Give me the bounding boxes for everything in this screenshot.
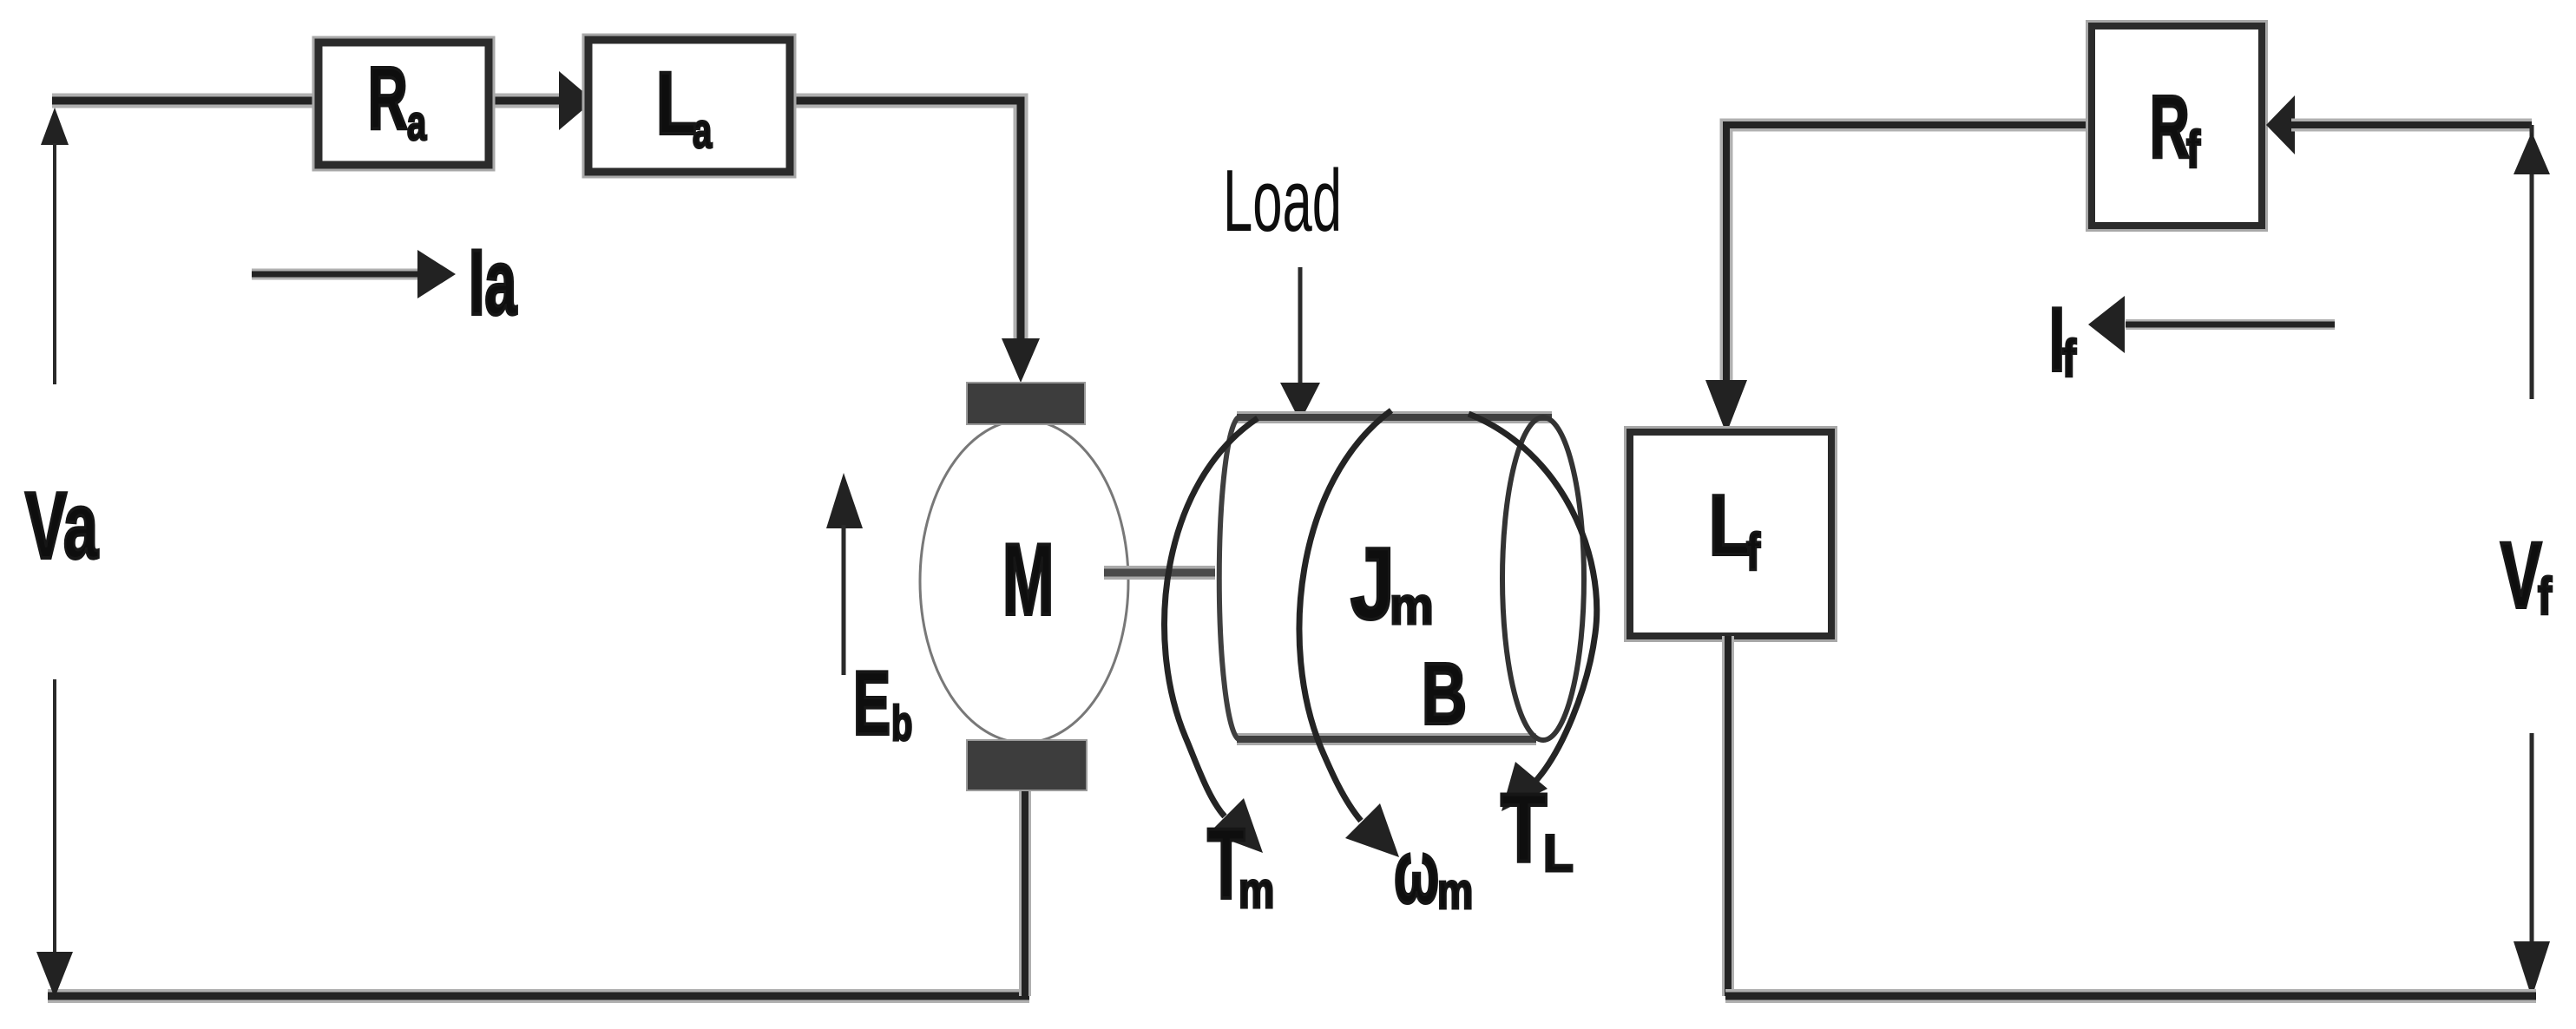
current arrow If [2088,296,2335,353]
svg-text:J: J [1350,528,1395,640]
voltage arrow Va bottom segment [36,679,73,998]
wire bottom armature [48,989,1029,1003]
svg-text:f: f [1746,523,1761,581]
label Jm [1350,528,1434,640]
svg-text:a: a [693,103,713,159]
label omega m [1394,822,1473,921]
wire top armature: Va top to motor top [52,101,1021,342]
wire below Lf [1722,636,1734,996]
svg-text:Ia: Ia [469,230,517,334]
svg-text:b: b [891,696,912,751]
label La [656,54,713,158]
field bottom wire [1725,989,2536,1003]
label If [2049,290,2077,390]
svg-text:E: E [853,653,890,753]
label Rf [2150,76,2201,179]
svg-text:f: f [2186,121,2201,179]
resistor Rf box [2092,26,2262,226]
label Ra [368,48,427,150]
speed arrow omega_m swirl [1299,410,1399,857]
svg-text:L: L [1709,478,1751,573]
voltage arrow Vf bottom segment [2514,733,2550,998]
svg-text:M: M [1002,522,1054,637]
wire motor bottom to bottom rail [1019,778,1031,996]
svg-text:m: m [1239,862,1274,919]
load cylinder bottom line [1237,733,1536,745]
load cylinder top line [1237,411,1552,423]
arrowhead into motor top brush [1002,338,1040,383]
load arrow down [1280,267,1320,422]
label TL [1501,775,1574,883]
inductor Lf box [1630,432,1831,636]
svg-text:f: f [2062,330,2077,388]
svg-text:Va: Va [25,472,99,579]
svg-text:Load: Load [1223,151,1342,249]
arrowhead Ra to La [559,71,594,130]
label Eb [853,653,912,753]
label Vf [2500,523,2553,627]
field wire: right top [2291,119,2532,132]
svg-text:ω: ω [1394,822,1439,921]
svg-text:m: m [1437,863,1473,920]
arrowhead into Rf right side [2266,95,2295,154]
svg-text:B: B [1422,646,1467,742]
back EMF arrow Eb [826,473,863,675]
motor bottom brush [967,740,1087,790]
load cylinder left cap arc [1219,417,1239,739]
load torque arrow TL swirl [1469,414,1597,811]
torque arrow Tm swirl [1165,418,1263,853]
svg-text:L: L [656,54,697,153]
current arrow Ia [252,250,456,298]
label Lf [1709,478,1761,582]
voltage arrow Vf top segment [2514,125,2550,399]
svg-text:L: L [1543,825,1574,883]
shaft [1104,566,1215,580]
svg-text:V: V [2500,523,2542,627]
resistor Ra box [319,43,489,165]
load cylinder right ellipse [1502,417,1584,740]
voltage arrow Va top segment [41,108,69,384]
svg-text:R: R [368,48,408,147]
label Tm [1207,809,1274,921]
field wire: Rf left to corner and down to Lf [1726,125,2095,387]
arrowhead into Lf [1705,380,1747,434]
motor top brush [967,383,1085,424]
svg-text:T: T [1501,775,1547,883]
svg-text:R: R [2150,76,2190,175]
motor armature ellipse [920,420,1128,743]
inductor La box [588,40,790,172]
svg-text:f: f [2538,567,2553,626]
svg-text:a: a [407,95,427,151]
svg-text:m: m [1390,578,1434,636]
